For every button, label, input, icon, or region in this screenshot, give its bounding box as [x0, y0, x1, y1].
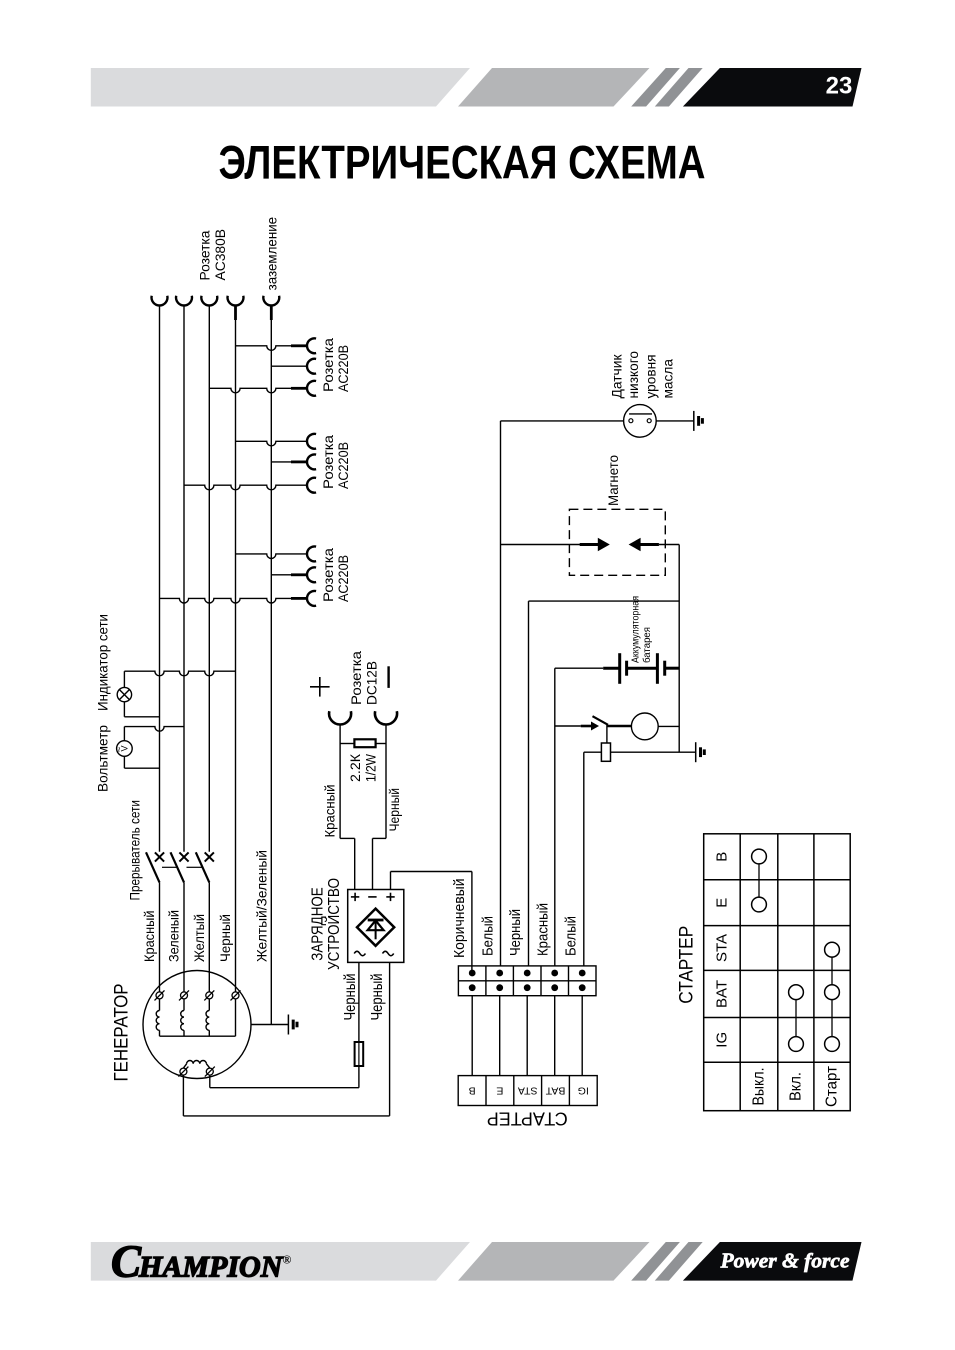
- breaker QF1 pole 3: [196, 852, 214, 882]
- svg-text:Красный: Красный: [142, 911, 158, 963]
- wire oil sensor to ground: [656, 420, 694, 422]
- wire red vertical: [554, 668, 556, 966]
- generator rotor coil: [183, 1061, 209, 1069]
- label Черный DC: [387, 788, 403, 832]
- wire L1 red vertical: [159, 306, 161, 852]
- svg-text:Вкл.: Вкл.: [787, 1072, 804, 1101]
- connector block XP1 5x2: [458, 966, 596, 996]
- wire PE yellow-green vertical: [270, 306, 272, 1025]
- starter table row labels: [714, 852, 731, 1048]
- battery GB1: [555, 653, 679, 684]
- svg-text:масла: масла: [660, 359, 676, 399]
- label СТАРТЕР table: [677, 926, 698, 1004]
- wire socket2 pin2 from PE: [271, 454, 316, 469]
- label Прерыватель сети: [128, 800, 144, 901]
- svg-text:Коричневый: Коричневый: [451, 879, 468, 959]
- wire black vertical: [528, 601, 530, 966]
- fuse F2: [601, 743, 610, 761]
- svg-text:AC220В: AC220В: [336, 345, 352, 392]
- label ЗАРЯДНОЕ УСТРОЙСТВО: [310, 878, 344, 970]
- label Желтый L3: [192, 914, 208, 962]
- label заземление: [265, 217, 281, 291]
- label Белый 1: [480, 916, 497, 956]
- wire connector pin 4 down: [554, 996, 556, 1076]
- starter switch SA1 fixed contact: [581, 722, 599, 731]
- label Белый 2: [562, 916, 579, 956]
- charger terminal ~ right: [383, 951, 394, 955]
- svg-text:заземление: заземление: [265, 217, 281, 291]
- breaker QF1 pole 1: [146, 852, 164, 882]
- wire N to star point: [235, 999, 237, 1036]
- svg-text:Розетка: Розетка: [321, 548, 337, 602]
- svg-text:уровня: уровня: [644, 355, 660, 399]
- svg-text:IG: IG: [714, 1032, 731, 1048]
- magneto dashed box: [569, 509, 665, 575]
- footer banner: [91, 1242, 862, 1281]
- label Красный DC: [323, 785, 339, 838]
- label Красный conn: [534, 903, 551, 956]
- generator rotor terminal 2: [205, 1067, 215, 1077]
- header banner with page number 23: [91, 68, 862, 107]
- svg-text:СТАРТЕР: СТАРТЕР: [677, 926, 698, 1004]
- connector pin P4 AC380V: [228, 296, 244, 320]
- svg-text:Розетка: Розетка: [198, 230, 214, 280]
- svg-text:Выкл.: Выкл.: [751, 1068, 768, 1106]
- label Красный L1: [142, 911, 158, 963]
- svg-text:Розетка: Розетка: [321, 338, 337, 392]
- svg-text:AC220В: AC220В: [336, 442, 352, 489]
- wire L2 below breaker: [183, 882, 185, 991]
- title ЭЛЕКТРИЧЕСКАЯ СХЕМА: [219, 136, 706, 189]
- charger terminal ~ left: [354, 951, 365, 955]
- svg-text:Power & force: Power & force: [720, 1249, 850, 1273]
- label Коричневый: [451, 879, 468, 959]
- label minus DC12V: [387, 666, 389, 688]
- wire magneto right to node B: [659, 544, 679, 546]
- wire socket2 pin1 from N: [236, 434, 317, 449]
- wire socket1 pin3 from L3: [209, 381, 316, 396]
- wire L3 yellow vertical: [208, 306, 210, 852]
- voltmeter PV1: [115, 727, 133, 769]
- svg-text:УСТРОЙСТВО: УСТРОЙСТВО: [324, 878, 343, 970]
- resistor R1 2.2K: [340, 739, 386, 747]
- wire socket1 pin2 from PE: [271, 359, 316, 374]
- connector pin P5 AC380V: [263, 296, 279, 320]
- charger terminal + right: [386, 893, 394, 901]
- wire connector pin 3 down: [526, 996, 528, 1076]
- charger bridge rectifier diamond: [357, 909, 394, 946]
- svg-text:AC220В: AC220В: [336, 555, 352, 602]
- starter connector strip B E STA BAT IG: [458, 1076, 597, 1106]
- svg-text:Черный: Черный: [369, 974, 386, 1021]
- svg-text:Вольтметр: Вольтметр: [96, 725, 112, 792]
- magneto spark gap right electrode: [629, 538, 659, 551]
- connector DC12V minus pin: [375, 711, 397, 724]
- svg-text:BAT: BAT: [714, 980, 731, 1008]
- wire charger ac1 down: [358, 962, 360, 1042]
- svg-text:B: B: [469, 1085, 476, 1097]
- wire solenoid to node B: [658, 725, 679, 727]
- wire voltmeter top to L2: [124, 727, 184, 732]
- generator G1 body: [143, 971, 251, 1079]
- wire switch pivot to fuse: [606, 724, 608, 743]
- lamp HL1 индикатор сети: [117, 671, 131, 717]
- wire charger ac2 down: [389, 962, 391, 1116]
- label Розетка AC220В socket XS1: [321, 338, 352, 392]
- connector pin P1 AC380V: [152, 296, 168, 306]
- label Розетка AC220В socket XS2: [321, 435, 352, 489]
- svg-text:Зеленый: Зеленый: [167, 910, 183, 962]
- label Розетка AC380В: [198, 229, 229, 281]
- svg-text:DC12В: DC12В: [365, 661, 381, 705]
- table contact BAT-IG on position: [789, 985, 804, 1052]
- label Магнето: [606, 455, 622, 506]
- label Индикатор сети: [96, 614, 112, 711]
- svg-text:Розетка: Розетка: [321, 435, 337, 489]
- svg-text:Магнето: Магнето: [606, 455, 622, 506]
- svg-text:Желтый: Желтый: [192, 914, 208, 962]
- generator ground line: [251, 1024, 288, 1026]
- table contact STA-BAT-IG start position: [825, 942, 840, 1051]
- starter switch SA1 blade: [593, 716, 632, 726]
- wire white to oil sensor: [501, 420, 624, 422]
- wire connector pin 2 down: [499, 996, 501, 1076]
- label Черный N: [218, 914, 234, 962]
- generator terminal W: [204, 990, 214, 1000]
- wire lamp bottom to L1: [124, 716, 159, 718]
- wire N black vertical: [235, 306, 237, 992]
- svg-text:STA: STA: [714, 934, 731, 962]
- svg-text:IG: IG: [578, 1085, 589, 1097]
- label Черный charger left: [342, 974, 359, 1021]
- generator rotor terminal 1: [178, 1067, 188, 1077]
- svg-text:Желтый/Зеленый: Желтый/Зеленый: [254, 850, 270, 962]
- svg-text:1/2W: 1/2W: [364, 753, 380, 782]
- charger terminal -: [368, 896, 376, 898]
- starter solenoid M1: [631, 713, 658, 740]
- svg-text:Красный: Красный: [534, 903, 551, 956]
- wire L1 below breaker: [159, 882, 161, 991]
- svg-text:AC380В: AC380В: [213, 229, 229, 281]
- svg-text:E: E: [714, 898, 731, 908]
- wire charger plus to brown: [391, 872, 472, 974]
- wire red to switch: [555, 725, 581, 727]
- label Зеленый L2: [167, 910, 183, 962]
- svg-text:Черный: Черный: [387, 788, 403, 832]
- oil level sensor SL1: [624, 405, 657, 438]
- svg-text:E: E: [496, 1085, 503, 1097]
- label Розетка AC220В socket XS3: [321, 548, 352, 602]
- label Розетка DC12В: [349, 651, 381, 705]
- svg-text:Красный: Красный: [323, 785, 339, 838]
- ground symbol oil sensor: [694, 411, 703, 431]
- breaker QF1 pole 2: [171, 852, 189, 882]
- svg-text:Индикатор сети: Индикатор сети: [96, 614, 112, 711]
- wire L2 green vertical: [183, 306, 185, 852]
- svg-text:Белый: Белый: [480, 916, 497, 956]
- label plus DC12V: [310, 677, 330, 697]
- label Аккумуляторная батарея: [630, 596, 654, 663]
- generator terminal V: [179, 990, 189, 1000]
- label Вольтметр: [96, 725, 112, 792]
- svg-text:Прерыватель сети: Прерыватель сети: [128, 800, 144, 901]
- wire voltmeter bottom to L1: [124, 767, 159, 769]
- wire socket3 pin3 from L1: [160, 591, 317, 606]
- wire socket2 pin3 from L2: [184, 478, 316, 493]
- svg-text:батарея: батарея: [641, 627, 653, 663]
- svg-text:ГЕНЕРАТОР: ГЕНЕРАТОР: [111, 984, 132, 1082]
- charger U1 box: [348, 890, 404, 963]
- svg-text:B: B: [714, 852, 731, 862]
- svg-text:Розетка: Розетка: [349, 651, 365, 705]
- svg-text:СТАРТЕР: СТАРТЕР: [487, 1109, 568, 1129]
- wire lamp top to N: [124, 671, 235, 676]
- connector DC12V plus pin: [329, 711, 351, 724]
- table contact B-E off position: [752, 849, 767, 912]
- label Желтый/Зеленый PE: [254, 850, 270, 962]
- ground symbol starter: [696, 742, 705, 762]
- wire magneto left: [501, 544, 581, 546]
- wire battery top line: [529, 600, 680, 602]
- logo CHAMPION: [111, 1237, 291, 1287]
- starter table column labels: [751, 1065, 841, 1107]
- svg-text:2.2К: 2.2К: [348, 753, 364, 782]
- generator terminal U: [155, 990, 165, 1000]
- wire socket3 pin2 from PE: [271, 567, 316, 582]
- breaker link line: [162, 866, 202, 868]
- fuse F1: [355, 1042, 364, 1066]
- connector pin P3 AC380V: [201, 296, 217, 306]
- label 2.2K 1/2W: [348, 753, 380, 782]
- wire connector pin 1 down: [471, 996, 473, 1076]
- starter table grid: [704, 834, 851, 1111]
- wire rotor2 down-right: [210, 1075, 359, 1088]
- label СТАРТЕР upside down: [487, 1109, 568, 1129]
- svg-text:BAT: BAT: [545, 1085, 565, 1097]
- wire L3 below breaker: [208, 882, 210, 991]
- svg-text:Черный: Черный: [218, 914, 234, 962]
- svg-text:Белый: Белый: [562, 916, 579, 956]
- label Черный charger right: [369, 974, 386, 1021]
- svg-text:ЗАРЯДНОЕ: ЗАРЯДНОЕ: [310, 887, 327, 961]
- wire white2 vertical: [583, 752, 585, 966]
- charger terminal + left: [351, 893, 359, 901]
- wire connector pin 5 down: [581, 996, 583, 1076]
- label Черный conn: [507, 909, 524, 956]
- label Датчик низкого уровня масла: [610, 351, 677, 399]
- wire rotor1 down-right: [183, 1075, 389, 1116]
- wire fuse to rotor2: [358, 1066, 360, 1088]
- svg-text:23: 23: [826, 73, 853, 100]
- connector pin P2 AC380V: [176, 296, 192, 306]
- wire socket1 pin1 from N: [236, 338, 317, 353]
- svg-text:Датчик: Датчик: [610, 354, 626, 399]
- svg-text:Аккумуляторная: Аккумуляторная: [630, 596, 642, 663]
- svg-text:STA: STA: [518, 1085, 538, 1097]
- wire ground line starter: [584, 751, 696, 753]
- wire white vertical: [500, 421, 502, 966]
- generator stator coil V: [181, 999, 184, 1036]
- svg-text:низкого: низкого: [626, 351, 642, 399]
- generator stator coil U: [156, 999, 159, 1036]
- generator terminal N: [231, 990, 241, 1000]
- wire DC plus red: [340, 725, 355, 890]
- generator stator coil W: [206, 999, 209, 1036]
- generator star point line: [160, 1035, 236, 1037]
- wire DC minus black: [373, 725, 387, 890]
- magneto spark gap left electrode: [580, 538, 610, 551]
- wire node B vertical: [678, 545, 680, 753]
- svg-text:Черный: Черный: [507, 909, 524, 956]
- ground symbol generator: [288, 1015, 297, 1035]
- svg-text:~: ~: [115, 747, 126, 753]
- svg-text:Черный: Черный: [342, 974, 359, 1021]
- wire socket3 pin1 from N: [236, 546, 317, 561]
- svg-text:ЭЛЕКТРИЧЕСКАЯ СХЕМА: ЭЛЕКТРИЧЕСКАЯ СХЕМА: [219, 136, 706, 189]
- svg-text:Старт: Старт: [824, 1065, 841, 1107]
- label ГЕНЕРАТОР: [111, 984, 132, 1082]
- logo Power & force: [720, 1249, 850, 1273]
